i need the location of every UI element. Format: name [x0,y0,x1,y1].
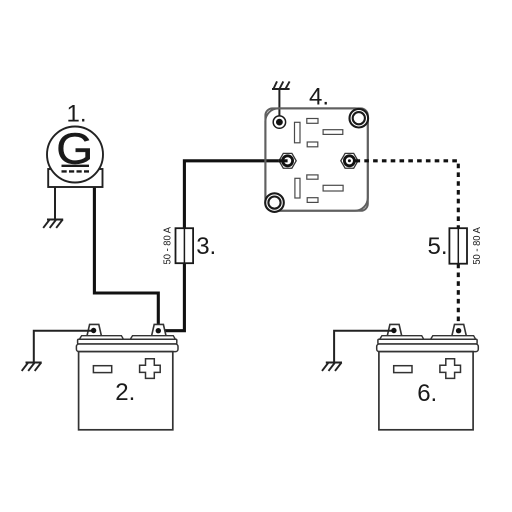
battery 6 right cap strip [431,336,476,340]
relay mounting hole bottom-left [265,193,284,212]
generator dashed bar under G [62,170,90,172]
ground (relay, flipped up) [272,81,290,89]
battery 6 negative terminal dot [391,328,396,333]
relay mounting hole top-right [350,109,369,128]
battery 6 positive terminal post [452,324,466,335]
ground (battery 2) [22,363,42,371]
relay U4 box [265,108,367,210]
wire generator output: down from generator, right, down to battery 2 positive terminal [94,186,158,331]
fuse F3 [176,228,194,263]
ground (generator) [43,220,63,228]
battery 6 minus mark [394,366,412,373]
svg-text:2.: 2. [115,379,135,406]
battery 6 positive terminal dot [456,328,461,333]
fuse F5 [449,228,467,264]
battery 2 minus mark [93,366,111,373]
battery 6 ground wire [334,331,394,363]
generator mount rectangle [48,169,102,187]
dashed wire relay right terminal to fuse 5 [356,161,459,228]
battery B2 [76,324,178,429]
ground (battery 6) [322,363,342,371]
battery 2 positive terminal dot [156,328,161,333]
svg-text:3.: 3. [196,233,216,260]
battery B6 [377,324,479,429]
battery 2 ground wire [34,331,94,363]
battery 2 positive terminal post [152,324,166,335]
generator circle [47,127,103,183]
battery 2 negative terminal post [87,324,101,335]
battery 6 lid lower [377,344,479,352]
generator solid bar under G [62,165,90,167]
battery 6 left cap strip [380,336,424,340]
svg-text:1.: 1. [67,101,87,128]
relay right terminal (nut + stud) [341,153,358,168]
relay ground terminal top-left [273,116,285,128]
svg-text:6.: 6. [417,380,437,407]
relay left terminal (nut + stud) [279,153,296,168]
battery 6 body [379,352,473,430]
wire fuse 3 bottom to battery 2 positive terminal [158,263,184,331]
relay slots top group [295,119,343,147]
relay slots bottom group [295,175,343,203]
generator G1 [47,124,103,187]
wire relay left terminal to fuse 3 and down to battery 2 positive terminal [184,161,287,229]
svg-text:50 - 80 A: 50 - 80 A [162,227,174,265]
svg-text:4.: 4. [309,84,329,111]
battery 2 body [79,352,173,430]
dashed wire fuse 5 to battery 6 positive terminal [457,264,460,331]
relay ground wire [278,89,280,122]
battery 2 left cap strip [79,336,123,340]
battery 2 right cap strip [130,336,175,340]
battery 2 negative terminal dot [91,328,96,333]
battery 2 plus mark [140,359,161,379]
svg-text:5.: 5. [428,233,448,260]
battery 2 lid lower [76,344,178,352]
battery 2 lid upper [78,339,177,344]
battery 6 plus mark [440,359,461,379]
battery 6 lid upper [378,339,477,344]
svg-text:50 - 80 A: 50 - 80 A [471,227,483,265]
battery 6 negative terminal post [387,324,401,335]
generator ground wire [54,186,56,220]
